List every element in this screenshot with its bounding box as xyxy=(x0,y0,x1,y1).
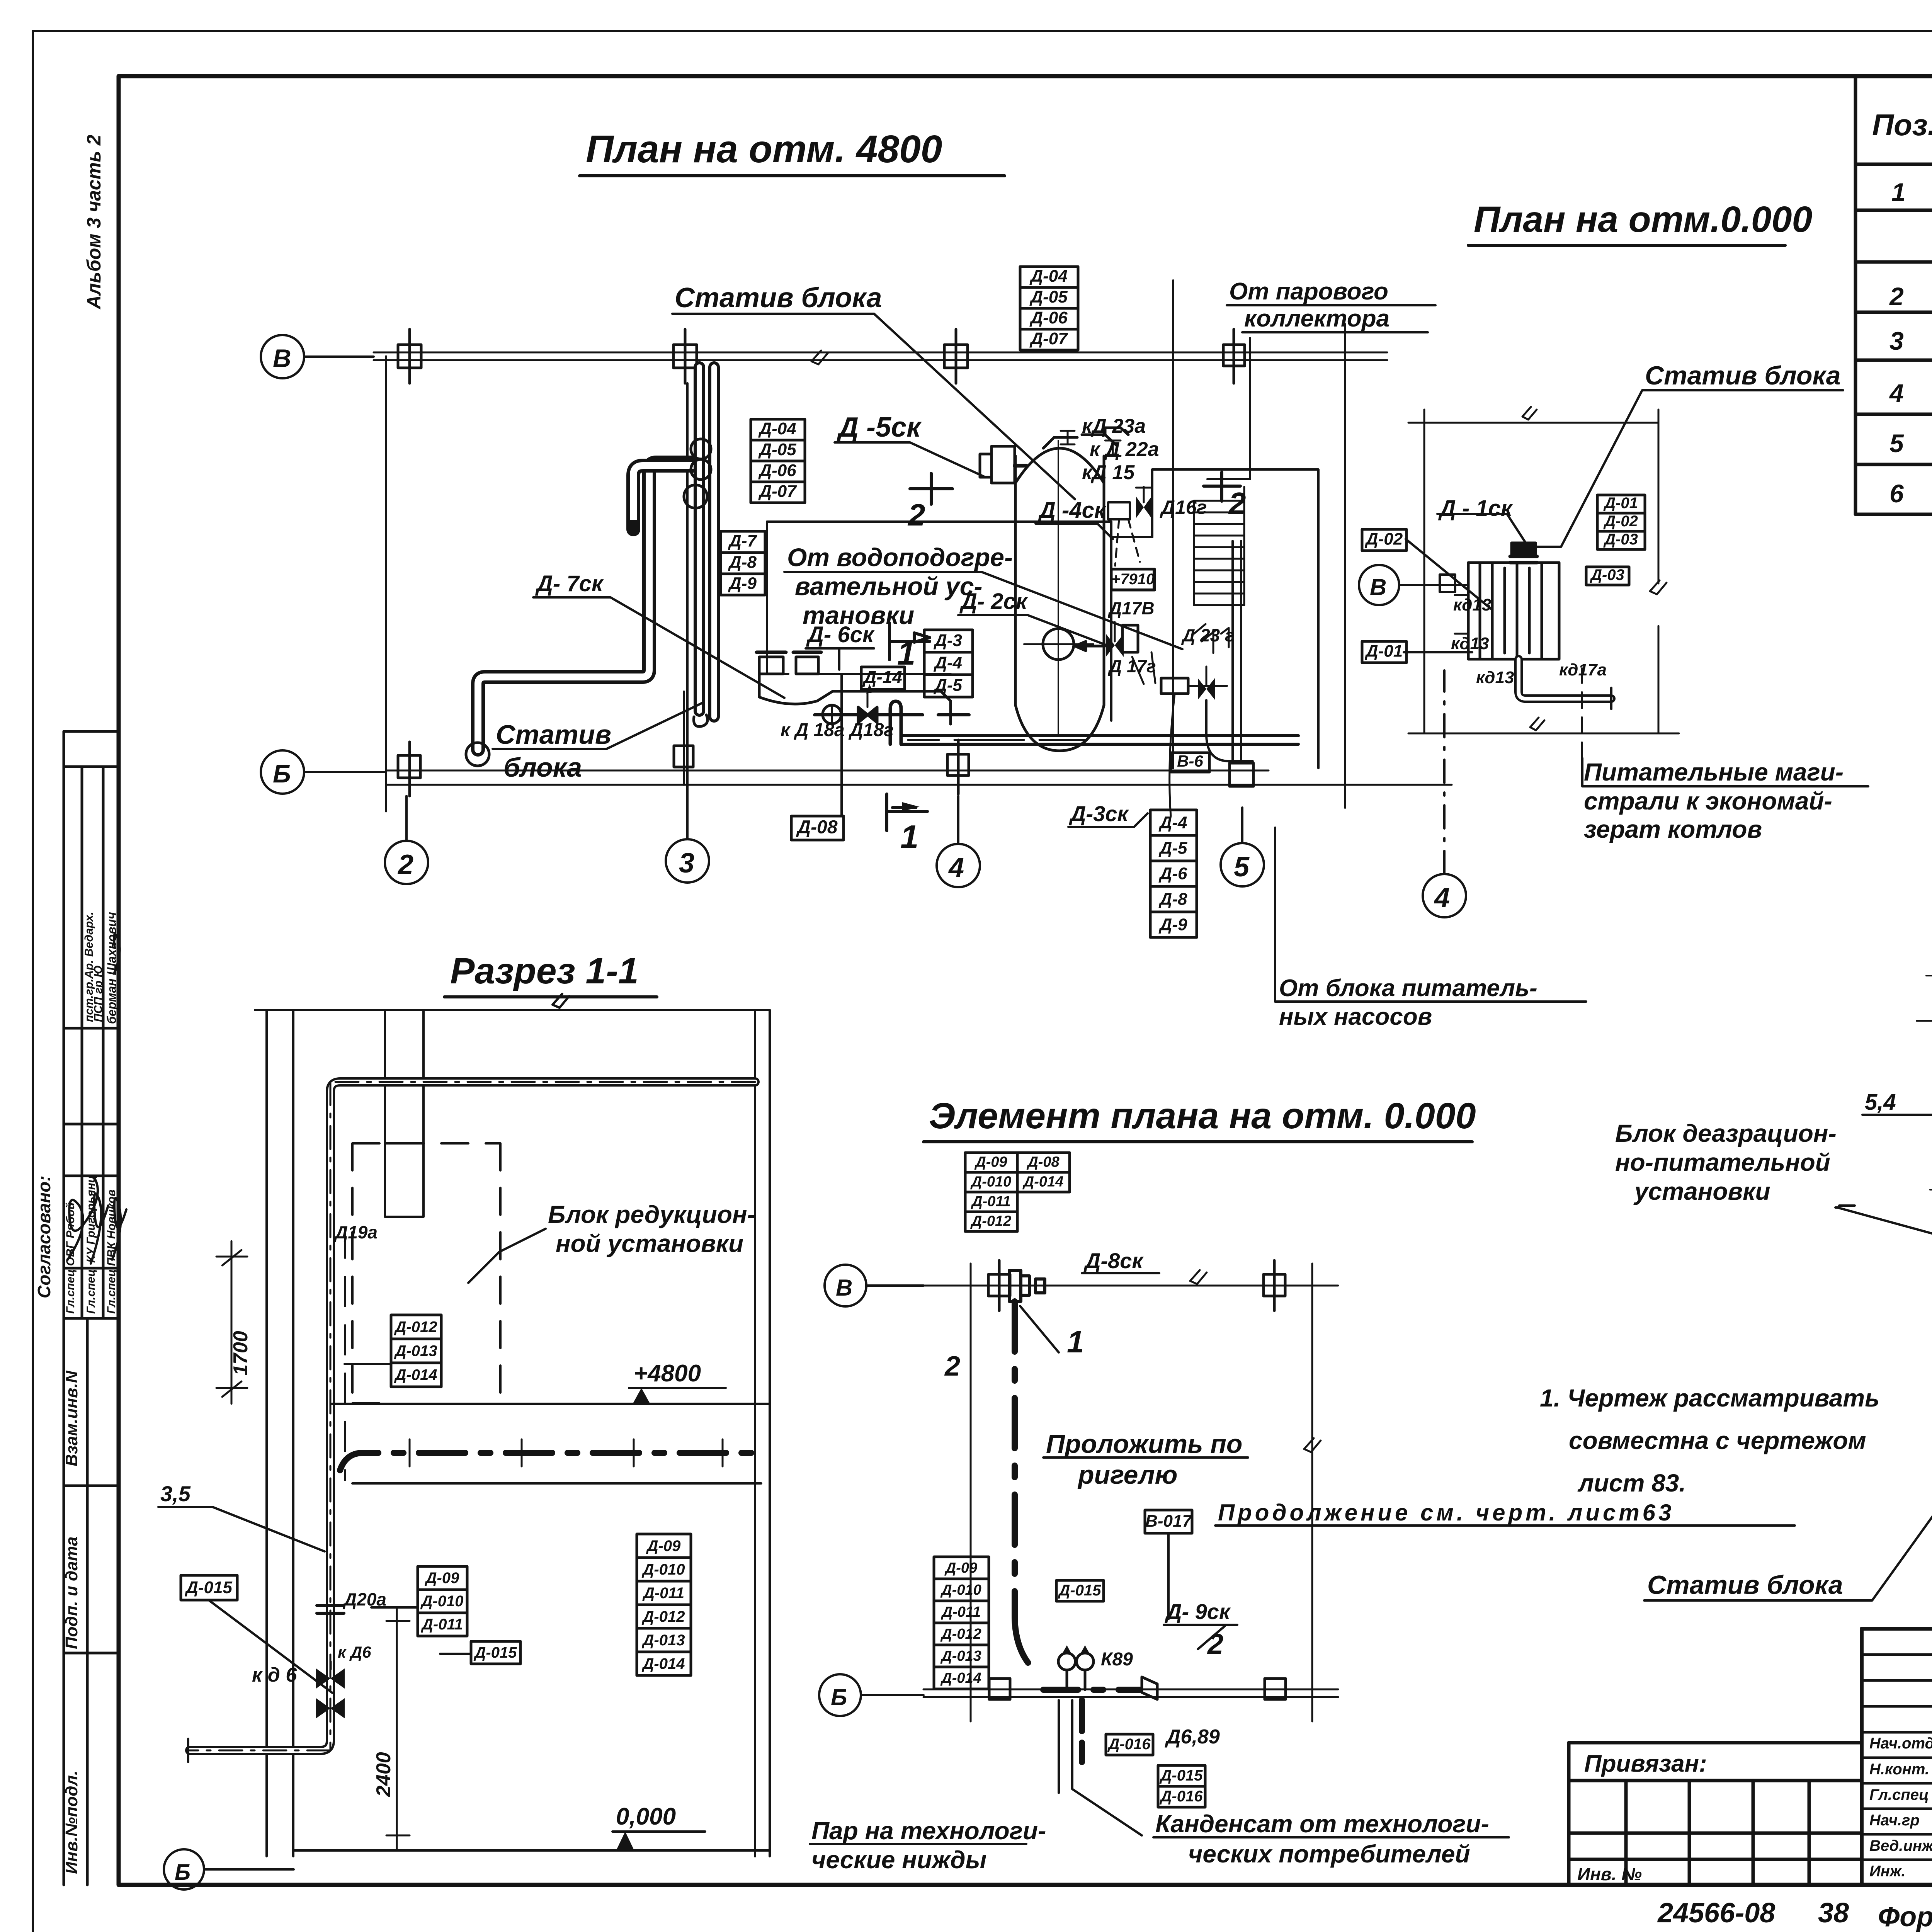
svg-text:Статив блока: Статив блока xyxy=(1647,1570,1843,1600)
svg-text:страли к экономай-: страли к экономай- xyxy=(1584,787,1832,815)
svg-text:ригелю: ригелю xyxy=(1077,1460,1177,1490)
svg-text:Элемент плана на отм. 0.000: Элемент плана на отм. 0.000 xyxy=(929,1095,1476,1136)
svg-text:Д-014: Д-014 xyxy=(1022,1174,1064,1190)
svg-text:Д-07: Д-07 xyxy=(1029,329,1068,348)
svg-text:От водоподогре-: От водоподогре- xyxy=(787,543,1013,571)
svg-text:Д-14: Д-14 xyxy=(862,667,902,687)
svg-text:3: 3 xyxy=(679,848,694,879)
svg-text:Вед.инж: Вед.инж xyxy=(1869,1837,1932,1854)
svg-text:Д-04: Д-04 xyxy=(1029,267,1067,286)
svg-text:Нач.отд: Нач.отд xyxy=(1869,1735,1932,1752)
svg-text:блока: блока xyxy=(503,752,582,782)
svg-text:вательной ус-: вательной ус- xyxy=(795,572,983,600)
svg-text:2: 2 xyxy=(397,849,413,880)
svg-text:Д-014: Д-014 xyxy=(642,1655,685,1672)
svg-text:План на отм.0.000: План на отм.0.000 xyxy=(1474,199,1812,240)
svg-text:Подп. и дата: Подп. и дата xyxy=(62,1537,81,1649)
svg-text:Д- 2ск: Д- 2ск xyxy=(959,589,1028,614)
svg-text:Инв. №: Инв. № xyxy=(1577,1864,1642,1884)
svg-text:Д-5: Д-5 xyxy=(1158,839,1187,858)
svg-text:Д-08: Д-08 xyxy=(1026,1154,1060,1170)
svg-text:ных насосов: ных насосов xyxy=(1279,1003,1432,1030)
svg-text:Проложить по: Проложить по xyxy=(1046,1429,1242,1459)
svg-text:Статив блока: Статив блока xyxy=(1645,361,1841,390)
svg-text:2: 2 xyxy=(1889,282,1904,311)
svg-text:В-017: В-017 xyxy=(1145,1512,1192,1531)
svg-text:Инв.№подл.: Инв.№подл. xyxy=(62,1770,81,1874)
svg-text:к д 6: к д 6 xyxy=(252,1664,297,1686)
svg-text:Д-4: Д-4 xyxy=(933,653,962,672)
svg-text:Д- 9ск: Д- 9ск xyxy=(1165,1599,1231,1624)
svg-text:Д-03: Д-03 xyxy=(1590,566,1624,583)
svg-text:к Д 22а: к Д 22а xyxy=(1090,438,1159,461)
svg-text:кд13: кд13 xyxy=(1476,668,1514,687)
svg-text:Блок деазрацион-: Блок деазрацион- xyxy=(1615,1119,1837,1147)
svg-text:ческих потребителей: ческих потребителей xyxy=(1188,1840,1470,1868)
svg-text:Д-012: Д-012 xyxy=(642,1608,685,1625)
svg-text:Д-014: Д-014 xyxy=(394,1367,437,1384)
svg-text:Д-015: Д-015 xyxy=(474,1644,517,1661)
svg-text:Привязан:: Привязан: xyxy=(1584,1750,1707,1777)
svg-text:Д-3ск: Д-3ск xyxy=(1069,801,1129,826)
svg-text:Д-07: Д-07 xyxy=(758,482,797,501)
svg-text:Д - 1ск: Д - 1ск xyxy=(1438,496,1513,521)
svg-text:Д-010: Д-010 xyxy=(642,1561,685,1578)
svg-text:5: 5 xyxy=(1234,852,1250,883)
svg-text:От парового: От парового xyxy=(1229,278,1388,305)
svg-text:Д-012: Д-012 xyxy=(394,1319,437,1336)
svg-text:Д -4ск: Д -4ск xyxy=(1037,498,1107,523)
svg-text:Канденсат от технологи-: Канденсат от технологи- xyxy=(1155,1810,1489,1838)
svg-text:Д-09: Д-09 xyxy=(944,1560,977,1576)
svg-text:Взам.инв.N: Взам.инв.N xyxy=(62,1370,81,1466)
svg-text:кд13: кд13 xyxy=(1451,634,1489,653)
svg-text:4: 4 xyxy=(1434,883,1450,913)
svg-text:Д-016: Д-016 xyxy=(1160,1788,1203,1805)
svg-text:4: 4 xyxy=(948,852,964,883)
svg-text:Д- 7ск: Д- 7ск xyxy=(535,571,604,596)
svg-text:Д-03: Д-03 xyxy=(1603,531,1638,548)
svg-text:Д-011: Д-011 xyxy=(941,1604,981,1620)
svg-text:Д-8ск: Д-8ск xyxy=(1083,1248,1144,1273)
svg-text:4: 4 xyxy=(1889,379,1904,407)
svg-text:2: 2 xyxy=(907,498,925,532)
svg-text:Д-02: Д-02 xyxy=(1603,513,1638,530)
svg-text:Д-011: Д-011 xyxy=(421,1616,463,1633)
svg-text:ной установки: ной установки xyxy=(556,1230,743,1257)
svg-text:Д-05: Д-05 xyxy=(1029,287,1068,306)
svg-text:Д-015: Д-015 xyxy=(1160,1767,1203,1784)
svg-text:Д-09: Д-09 xyxy=(425,1570,459,1587)
svg-text:Д-01: Д-01 xyxy=(1603,495,1638,512)
svg-text:Гл.спец: Гл.спец xyxy=(1869,1786,1929,1803)
svg-text:кД 15: кД 15 xyxy=(1082,461,1135,484)
svg-text:Д -5ск: Д -5ск xyxy=(836,412,922,443)
svg-text:1: 1 xyxy=(1891,178,1906,206)
svg-text:зерат котлов: зерат котлов xyxy=(1584,815,1762,843)
svg-text:От блока питатель-: От блока питатель- xyxy=(1279,975,1537,1002)
svg-text:Д-4: Д-4 xyxy=(1158,813,1187,832)
svg-text:Д-9: Д-9 xyxy=(1158,915,1187,934)
svg-text:+4800: +4800 xyxy=(634,1360,701,1387)
svg-text:ческие нижды: ческие нижды xyxy=(811,1846,986,1874)
svg-text:Д-010: Д-010 xyxy=(420,1593,464,1610)
svg-text:+7910: +7910 xyxy=(1111,571,1155,588)
svg-text:установки: установки xyxy=(1633,1177,1770,1205)
svg-text:Д-7: Д-7 xyxy=(728,532,757,551)
svg-text:Д-8: Д-8 xyxy=(1158,890,1187,909)
svg-text:В-6: В-6 xyxy=(1177,752,1203,770)
svg-text:Д 23 г: Д 23 г xyxy=(1181,625,1235,645)
svg-text:К89: К89 xyxy=(1101,1649,1133,1670)
svg-text:Д-011: Д-011 xyxy=(642,1585,684,1602)
svg-text:Продолжение см. черт. лист63: Продолжение см. черт. лист63 xyxy=(1218,1500,1674,1526)
svg-text:Д-010: Д-010 xyxy=(970,1174,1012,1190)
svg-text:Д6,89: Д6,89 xyxy=(1165,1726,1220,1748)
svg-text:Д16г: Д16г xyxy=(1160,497,1207,518)
svg-text:Д-010: Д-010 xyxy=(940,1582,981,1598)
svg-text:Д 17г: Д 17г xyxy=(1107,656,1156,676)
svg-text:1: 1 xyxy=(1067,1325,1084,1359)
svg-text:Д-5: Д-5 xyxy=(933,676,962,695)
svg-text:Поз.: Поз. xyxy=(1872,108,1932,142)
svg-text:1. Чертеж рассматривать: 1. Чертеж рассматривать xyxy=(1540,1384,1879,1412)
svg-text:Д-08: Д-08 xyxy=(796,817,837,838)
svg-text:5: 5 xyxy=(1889,429,1904,457)
svg-text:к Д6: к Д6 xyxy=(338,1643,371,1661)
svg-text:Статив блока: Статив блока xyxy=(675,282,882,313)
svg-text:Д-8: Д-8 xyxy=(728,553,757,572)
svg-text:Д-06: Д-06 xyxy=(1029,308,1068,327)
svg-text:Д-013: Д-013 xyxy=(394,1343,437,1360)
svg-text:Д-012: Д-012 xyxy=(970,1213,1012,1230)
svg-text:коллектора: коллектора xyxy=(1244,305,1389,332)
svg-text:Д-09: Д-09 xyxy=(974,1154,1007,1170)
svg-text:Д-016: Д-016 xyxy=(1107,1736,1151,1753)
svg-text:Д- 6ск: Д- 6ск xyxy=(806,622,875,647)
svg-text:6: 6 xyxy=(1889,479,1904,508)
svg-text:Разрез 1-1: Разрез 1-1 xyxy=(450,951,639,992)
svg-text:Д-015: Д-015 xyxy=(1058,1582,1102,1599)
svg-text:Питательные маги-: Питательные маги- xyxy=(1584,758,1844,786)
svg-text:38: 38 xyxy=(1818,1898,1849,1929)
svg-text:Д-012: Д-012 xyxy=(940,1626,981,1642)
svg-text:Инж.: Инж. xyxy=(1869,1863,1906,1880)
svg-text:2400: 2400 xyxy=(372,1752,395,1797)
svg-text:Д-9: Д-9 xyxy=(728,574,757,593)
svg-text:2: 2 xyxy=(1207,1628,1223,1660)
svg-text:1: 1 xyxy=(900,819,918,855)
svg-text:В: В xyxy=(1370,574,1386,600)
svg-text:Д-06: Д-06 xyxy=(758,461,796,480)
svg-text:В: В xyxy=(273,344,291,372)
svg-text:совместна с чертежом: совместна с чертежом xyxy=(1569,1427,1866,1454)
svg-text:Статив: Статив xyxy=(496,719,611,750)
svg-text:В: В xyxy=(836,1275,852,1301)
svg-text:Д-014: Д-014 xyxy=(940,1670,981,1686)
svg-text:Нач.гр: Нач.гр xyxy=(1869,1812,1920,1829)
svg-text:Д-05: Д-05 xyxy=(758,440,796,459)
svg-text:Д-3: Д-3 xyxy=(933,631,962,650)
svg-text:Б: Б xyxy=(831,1684,847,1710)
svg-text:3: 3 xyxy=(1889,327,1904,355)
svg-text:кД 23а: кД 23а xyxy=(1082,415,1146,437)
svg-text:Д-013: Д-013 xyxy=(642,1632,685,1649)
svg-text:Д19а: Д19а xyxy=(333,1222,378,1242)
svg-text:но-питательной: но-питательной xyxy=(1615,1148,1830,1176)
svg-text:3,5: 3,5 xyxy=(160,1481,191,1506)
svg-text:Д-013: Д-013 xyxy=(940,1648,981,1664)
svg-text:Н.конт.: Н.конт. xyxy=(1869,1761,1929,1778)
svg-text:1700: 1700 xyxy=(230,1331,252,1376)
svg-text:Д-02: Д-02 xyxy=(1364,530,1403,549)
svg-text:Пар на технологи-: Пар на технологи- xyxy=(811,1817,1046,1845)
svg-text:Блок редукцион-: Блок редукцион- xyxy=(548,1201,755,1228)
svg-text:Б: Б xyxy=(175,1860,190,1885)
svg-text:Формат А2: Формат А2 xyxy=(1878,1901,1932,1932)
svg-text:2: 2 xyxy=(1228,486,1246,520)
svg-text:Д-015: Д-015 xyxy=(184,1578,232,1597)
svg-text:2: 2 xyxy=(944,1351,960,1382)
svg-text:Альбом 3 часть 2: Альбом 3 часть 2 xyxy=(83,134,105,310)
svg-text:0,000: 0,000 xyxy=(616,1803,676,1830)
svg-text:Д-01: Д-01 xyxy=(1364,642,1403,661)
svg-text:Б: Б xyxy=(273,759,291,788)
svg-text:Согласовано:: Согласовано: xyxy=(34,1175,54,1298)
svg-text:24566-08: 24566-08 xyxy=(1657,1898,1775,1929)
svg-text:Д-09: Д-09 xyxy=(646,1537,681,1554)
svg-text:к Д 18а Д18г: к Д 18а Д18г xyxy=(781,720,894,740)
svg-text:План на отм. 4800: План на отм. 4800 xyxy=(586,128,942,171)
svg-text:ПСП гр Ю: ПСП гр Ю xyxy=(92,965,105,1022)
svg-text:5,4: 5,4 xyxy=(1865,1090,1896,1115)
svg-text:лист 83.: лист 83. xyxy=(1577,1469,1686,1497)
svg-text:Д17В: Д17В xyxy=(1107,598,1155,618)
svg-text:Д-011: Д-011 xyxy=(971,1194,1011,1210)
svg-text:Д-6: Д-6 xyxy=(1158,864,1187,883)
svg-text:Д-04: Д-04 xyxy=(758,419,796,438)
